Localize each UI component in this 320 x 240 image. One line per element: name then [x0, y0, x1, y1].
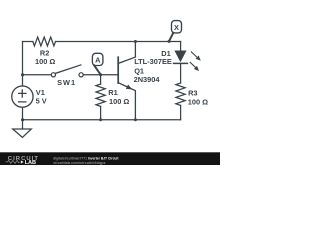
svg-text:X: X — [174, 23, 179, 32]
junction dot switch branch — [21, 73, 24, 76]
svg-text:LTL-307EE: LTL-307EE — [134, 57, 172, 66]
switch SW1 terminal right — [79, 73, 83, 77]
svg-text:5 V: 5 V — [36, 97, 47, 106]
diode D1 LED cathode bar — [174, 62, 188, 64]
junction dot V1 ground — [21, 118, 24, 121]
probe A connector — [94, 65, 100, 74]
footer logo LAB — [21, 160, 24, 163]
LED arrowhead 1 — [196, 56, 201, 61]
svg-text:100 Ω: 100 Ω — [188, 97, 208, 106]
wire top rail left segment — [23, 41, 33, 43]
LED arrowhead 2 — [194, 66, 199, 71]
transistor Q1 collector — [118, 42, 135, 64]
svg-text:LAB: LAB — [25, 160, 36, 165]
LED light arrow 1 shaft — [191, 52, 197, 58]
wire top rail right segment — [56, 41, 181, 43]
svg-text:100 Ω: 100 Ω — [109, 97, 129, 106]
junction dot emitter bottom — [134, 118, 137, 121]
junction dot probe X — [168, 40, 171, 43]
wire R1 top lead — [100, 75, 102, 84]
switch SW1 terminal left — [51, 73, 55, 77]
footer logo zigzag — [6, 160, 20, 163]
svg-text:R3: R3 — [188, 89, 197, 98]
probe X connector — [169, 33, 173, 42]
wire switch branch — [23, 74, 52, 76]
wire R3 bottom lead — [180, 105, 182, 119]
svg-text:circuitlab.com/circuit/c6dqpz: circuitlab.com/circuit/c6dqpz — [53, 161, 105, 165]
resistor R2 — [33, 37, 56, 46]
resistor R1 — [96, 84, 105, 106]
svg-text:digitalcircuitman7771 Inverter: digitalcircuitman7771 Inverter BJT Circu… — [53, 156, 119, 160]
wire bottom rail — [23, 119, 181, 121]
svg-text:A: A — [95, 55, 101, 64]
wire switch to transistor base — [83, 74, 117, 76]
junction dot R1 bottom — [99, 118, 102, 121]
transistor Q1 base bar — [117, 57, 119, 83]
wire R1 bottom lead — [100, 106, 102, 119]
svg-text:100 Ω: 100 Ω — [35, 57, 55, 66]
ground — [22, 120, 24, 129]
transistor Q1 emitter arrowhead — [126, 85, 132, 90]
probe X box — [172, 21, 182, 33]
wire LED anode lead — [180, 42, 182, 51]
voltage source V1 — [12, 86, 33, 107]
wire left rail lower — [22, 107, 24, 120]
wire left rail upper — [22, 42, 24, 87]
switch SW1 lever — [56, 65, 81, 73]
transistor Q1 emitter — [118, 83, 135, 120]
wire LED to R3 — [180, 64, 182, 83]
resistor R3 — [176, 83, 185, 105]
svg-text:2N3904: 2N3904 — [134, 75, 161, 84]
LED light arrow 2 shaft — [190, 62, 196, 67]
diode D1 LED triangle — [174, 51, 186, 63]
svg-text:SW1: SW1 — [57, 78, 76, 87]
junction dot collector top — [134, 40, 137, 43]
junction dot base — [99, 73, 102, 76]
footer bar — [0, 152, 220, 165]
probe A box — [92, 53, 103, 65]
